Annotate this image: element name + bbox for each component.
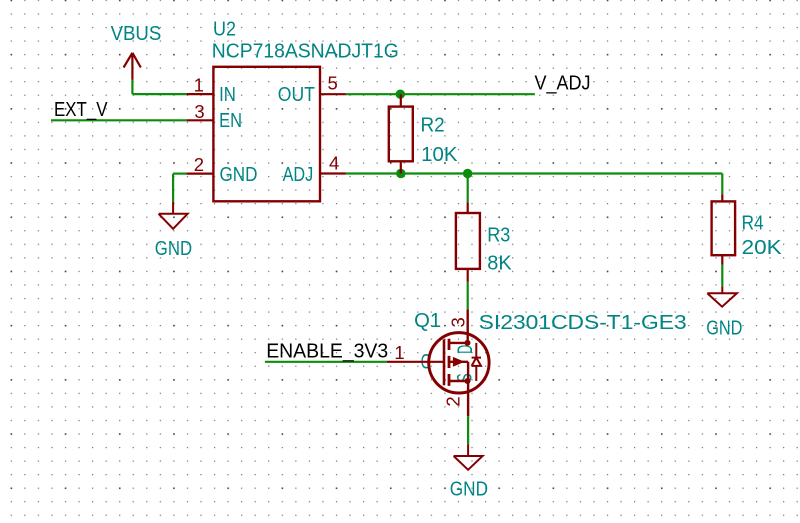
resistor R2 xyxy=(389,94,413,173)
wire ENABLE_3V3 to gate xyxy=(265,361,387,363)
svg-text:SI2301CDS-T1-GE3: SI2301CDS-T1-GE3 xyxy=(479,312,687,334)
power symbol VBUS xyxy=(124,53,141,80)
wire U2 GND vertical xyxy=(172,174,174,202)
svg-text:2: 2 xyxy=(443,396,464,406)
regulator U2 body xyxy=(213,67,320,202)
svg-text:8K: 8K xyxy=(487,253,512,275)
junction at OUT/R2 xyxy=(396,90,405,99)
wire ADJ net xyxy=(346,172,722,174)
Q1 gate pin line xyxy=(387,361,444,363)
svg-text:U2: U2 xyxy=(213,19,236,41)
svg-text:3: 3 xyxy=(448,317,469,327)
pin 2 GND xyxy=(187,173,214,175)
resistor R3 xyxy=(456,202,480,281)
Q1 source pin vertical xyxy=(467,381,469,416)
pin 1 IN xyxy=(187,93,214,95)
Q1 drain node dot xyxy=(465,340,471,346)
wire VBUS vertical xyxy=(131,80,133,94)
Q1 gate bar xyxy=(443,339,446,385)
svg-text:R3: R3 xyxy=(487,224,510,246)
Q1 body circle xyxy=(429,333,489,393)
svg-text:ENABLE_3V3: ENABLE_3V3 xyxy=(266,340,388,362)
wire EXT_V to pin 3 xyxy=(51,119,187,121)
pin 4 ADJ xyxy=(320,172,346,174)
Q1 drain horizontal xyxy=(450,342,468,344)
transistor Q1 P-MOSFET xyxy=(387,309,481,416)
ground symbol at Q1 source xyxy=(454,444,483,469)
Q1 source horizontal xyxy=(450,380,468,382)
pin 5 OUT xyxy=(320,93,346,95)
svg-text:1: 1 xyxy=(194,74,204,95)
wire Q1 source to GND xyxy=(467,416,469,444)
svg-text:IN: IN xyxy=(219,84,236,106)
svg-text:20K: 20K xyxy=(742,237,783,259)
wire U2 GND horizontal xyxy=(173,173,187,175)
Q1 substrate to source xyxy=(467,362,469,381)
ground symbol at R4 xyxy=(707,286,737,307)
wire R4 bottom xyxy=(721,265,723,287)
svg-text:Q1: Q1 xyxy=(414,310,441,332)
svg-text:EN: EN xyxy=(219,110,242,132)
svg-text:R4: R4 xyxy=(742,213,764,235)
svg-text:2: 2 xyxy=(194,154,204,175)
Q1 arrow xyxy=(453,357,465,367)
wire to R4 xyxy=(721,174,723,195)
svg-text:GND: GND xyxy=(706,317,742,339)
svg-text:OUT: OUT xyxy=(278,84,315,106)
svg-text:D: D xyxy=(454,345,477,354)
resistor R4 xyxy=(712,194,736,264)
Q1 substrate line xyxy=(449,361,468,363)
svg-text:1: 1 xyxy=(394,342,404,363)
Q1 channel segments xyxy=(448,339,451,386)
svg-text:EXT_V: EXT_V xyxy=(54,99,108,121)
svg-text:GND: GND xyxy=(220,164,258,186)
svg-text:GND: GND xyxy=(155,238,192,260)
svg-text:NCP718ASNADJT1G: NCP718ASNADJT1G xyxy=(212,41,399,63)
svg-text:ADJ: ADJ xyxy=(283,164,314,186)
svg-text:3: 3 xyxy=(194,101,204,122)
svg-text:5: 5 xyxy=(328,73,338,94)
wire VBUS to pin 1 xyxy=(132,93,186,95)
svg-text:R2: R2 xyxy=(421,114,445,136)
svg-text:10K: 10K xyxy=(421,144,458,166)
wire R3 top xyxy=(467,174,469,203)
svg-text:V_ADJ: V_ADJ xyxy=(535,73,591,95)
svg-text:4: 4 xyxy=(329,153,339,174)
wire OUT net xyxy=(346,93,535,95)
ground symbol at U2 pin 2 xyxy=(159,202,188,229)
junction at R3/ADJ xyxy=(463,169,472,178)
Q1 body diode xyxy=(472,343,481,381)
svg-text:GND: GND xyxy=(450,478,488,500)
Q1 drain pin vertical xyxy=(467,309,469,343)
junction at R2/ADJ xyxy=(396,169,405,178)
wire R3 to Q1 drain xyxy=(467,282,469,310)
pin 3 EN xyxy=(187,119,214,121)
Q1 source node dot xyxy=(465,378,471,384)
svg-text:VBUS: VBUS xyxy=(111,23,162,45)
